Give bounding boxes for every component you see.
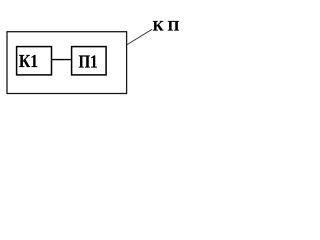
svg-text:П1: П1 — [79, 51, 98, 71]
block P1 — [72, 47, 107, 75]
svg-text:КП: КП — [153, 18, 180, 34]
callout leader line — [127, 29, 152, 45]
block K1 — [17, 47, 52, 75]
svg-text:К1: К1 — [19, 51, 38, 71]
outer box КП — [7, 32, 127, 94]
wire K1-P1 — [52, 59, 72, 61]
